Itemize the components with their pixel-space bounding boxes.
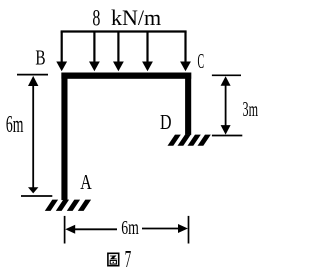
load arrow 2 [89,32,100,72]
load arrow 5 [180,32,191,72]
load arrow 3 [113,32,124,72]
load arrow 4 [142,32,153,72]
left dimension 6m top tick [17,74,48,76]
right dimension 3m top tick [212,74,241,76]
load arrow 1 [56,32,67,72]
left dimension 6m arrow line [28,76,38,193]
svg-text:A: A [80,170,92,194]
bottom dimension 6m left arrow [65,225,117,234]
bottom dimension 6m right tick [188,216,190,244]
bottom dimension 6m right arrow [142,224,188,233]
beam BC [61,73,191,79]
svg-text:D: D [160,110,172,134]
load value label 8 kN/m [92,5,161,31]
distributed load top line [61,30,187,32]
right dimension 3m arrow line [221,76,231,134]
svg-text:6m: 6m [6,112,24,138]
right dimension 3m bottom tick [212,135,242,137]
svg-text:C: C [198,49,205,73]
svg-text:kN/m: kN/m [111,5,162,30]
svg-text:3m: 3m [243,97,259,121]
support D hatching [168,135,211,146]
column AB [61,73,67,201]
svg-text:B: B [35,46,45,70]
column CD [185,73,191,135]
support A hatching [45,200,91,211]
caption 圖 7 [108,247,131,273]
left dimension 6m bottom tick [21,195,52,197]
bottom dimension 6m left tick [64,216,66,244]
svg-text:8: 8 [92,5,100,31]
svg-text:6m: 6m [121,217,139,239]
svg-text:7: 7 [125,247,132,273]
